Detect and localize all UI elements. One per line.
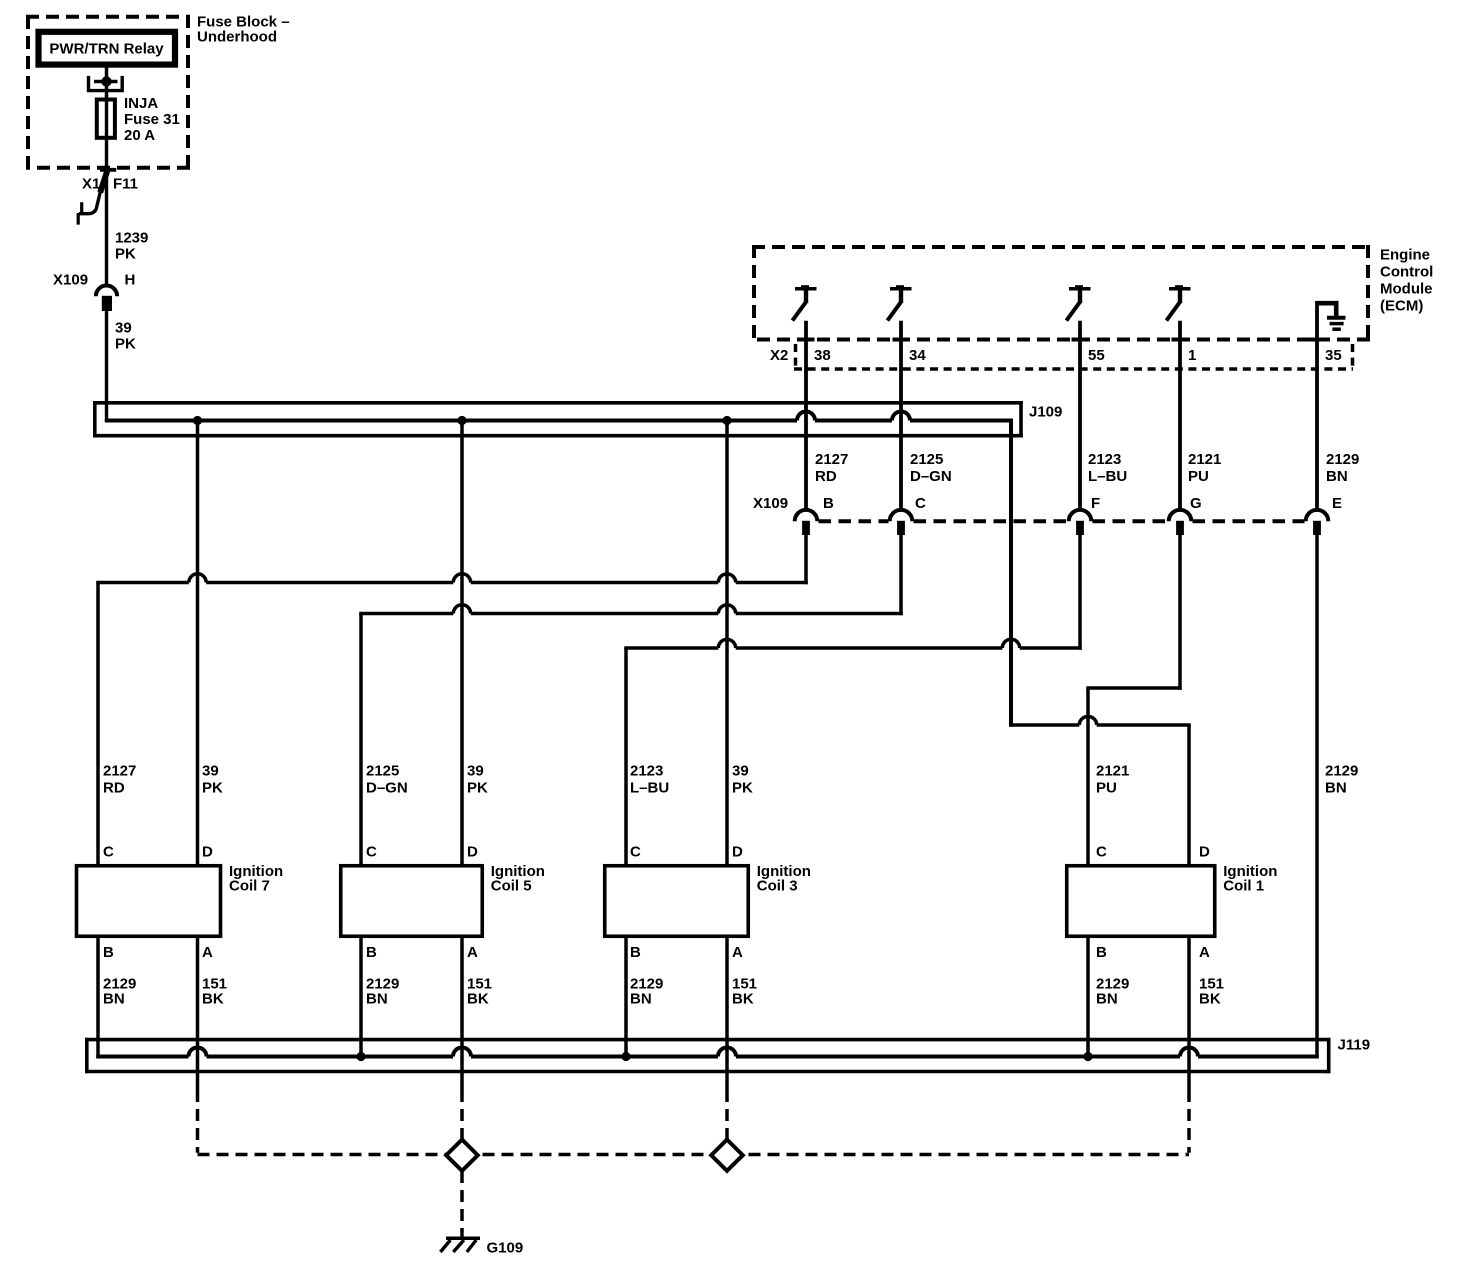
wire 39 PK J109 to coil3 D xyxy=(725,421,729,866)
svg-text:L–BU: L–BU xyxy=(630,780,669,797)
wire 2129 BN coil7 B to J119 xyxy=(96,937,100,1059)
wire 39 PK to coil1 D xyxy=(1187,725,1191,866)
connector X109 pin C xyxy=(890,510,913,521)
svg-text:INJA: INJA xyxy=(124,95,158,112)
svg-text:C: C xyxy=(366,844,377,861)
junction J119 coil1 B xyxy=(1083,1052,1092,1061)
svg-text:D: D xyxy=(202,844,213,861)
splice pack J109 outer box xyxy=(93,401,1023,438)
svg-text:2127: 2127 xyxy=(815,451,848,468)
svg-text:RD: RD xyxy=(815,468,837,485)
wire 2129 BN coil3 B to J119 xyxy=(624,937,628,1059)
svg-text:2125: 2125 xyxy=(366,763,399,780)
ignition coil 3 xyxy=(605,866,749,937)
svg-text:B: B xyxy=(630,944,641,961)
ECM driver output pin 34 xyxy=(887,285,911,320)
svg-text:B: B xyxy=(103,944,114,961)
svg-text:J119: J119 xyxy=(1338,1037,1371,1054)
wire 2127 RD horizontal xyxy=(96,574,808,583)
svg-text:BK: BK xyxy=(202,991,224,1008)
wire 151 BK coil7 A down xyxy=(196,937,200,1090)
wire 39 PK J109 to coil7 D xyxy=(196,421,200,866)
wire 2121 PU ECM 1 to X109 G xyxy=(1178,321,1182,510)
svg-text:J109: J109 xyxy=(1029,404,1062,421)
svg-text:Coil 3: Coil 3 xyxy=(757,878,798,895)
svg-text:2121: 2121 xyxy=(1188,451,1221,468)
ECM driver output pin 1 xyxy=(1166,285,1190,320)
wire X109 F down xyxy=(1078,535,1082,650)
svg-text:PK: PK xyxy=(732,780,753,797)
svg-text:PK: PK xyxy=(202,780,223,797)
ground G109 xyxy=(460,1232,463,1239)
fuse F31 INJA 20A xyxy=(97,100,115,138)
splice diamond at coil3 ground xyxy=(711,1140,743,1171)
svg-text:2125: 2125 xyxy=(910,451,943,468)
svg-text:X109: X109 xyxy=(53,272,88,289)
PWR/TRN Relay K-relay box xyxy=(39,32,176,65)
wire 39 PK horizontal to coil1 D xyxy=(1009,716,1191,725)
svg-text:39: 39 xyxy=(732,763,749,780)
svg-text:2123: 2123 xyxy=(1088,451,1121,468)
ignition coil 5 xyxy=(341,866,483,937)
svg-text:PWR/TRN Relay: PWR/TRN Relay xyxy=(49,41,164,58)
svg-text:A: A xyxy=(1199,944,1210,961)
ECM internal chassis ground xyxy=(1317,303,1336,316)
svg-text:PK: PK xyxy=(115,246,136,263)
svg-text:F11: F11 xyxy=(113,176,138,193)
wire 151 BK coil1 A down xyxy=(1187,937,1191,1090)
wire 39 PK J109 to coil1 D xyxy=(1009,419,1013,727)
wire 2125 D-GN horizontal xyxy=(359,605,903,614)
svg-text:E: E xyxy=(1332,495,1342,512)
wire 1239 PK fuse to X109 H xyxy=(105,142,108,284)
svg-text:D–GN: D–GN xyxy=(910,468,952,485)
splice pack J119 bus bar xyxy=(96,1048,1319,1057)
svg-text:G: G xyxy=(1190,495,1202,512)
svg-text:A: A xyxy=(732,944,743,961)
ignition coil 1 xyxy=(1067,866,1215,937)
svg-text:C: C xyxy=(915,495,926,512)
pin ticks on X2 row xyxy=(798,338,815,342)
junction J119 coil3 B xyxy=(621,1052,630,1061)
svg-text:BN: BN xyxy=(366,991,388,1008)
svg-text:BN: BN xyxy=(630,991,652,1008)
svg-text:D: D xyxy=(732,844,743,861)
svg-text:A: A xyxy=(467,944,478,961)
svg-text:RD: RD xyxy=(103,780,125,797)
wire 151 BK coil7 A dashed xyxy=(196,1090,200,1153)
Engine Control Module (ECM) dashed box xyxy=(752,245,1370,340)
wire 2121 PU to coil1 C xyxy=(1086,688,1090,866)
svg-text:BK: BK xyxy=(732,991,754,1008)
junction on J109 at coil5 feed xyxy=(457,416,466,425)
wire 2129 BN coil1 B to J119 xyxy=(1086,937,1090,1059)
svg-text:34: 34 xyxy=(909,347,926,364)
svg-text:BN: BN xyxy=(1326,468,1348,485)
svg-text:38: 38 xyxy=(814,347,831,364)
svg-text:B: B xyxy=(366,944,377,961)
svg-text:PU: PU xyxy=(1096,780,1117,797)
connector X109 pin B xyxy=(795,510,818,521)
svg-text:Engine: Engine xyxy=(1380,247,1430,264)
svg-text:1: 1 xyxy=(1188,347,1196,364)
svg-text:D: D xyxy=(1199,844,1210,861)
wire 2127 RD to coil7 C xyxy=(96,583,100,866)
wire X109 B down xyxy=(804,535,808,584)
svg-text:2121: 2121 xyxy=(1096,763,1129,780)
wire 39 PK J109 to coil5 D xyxy=(460,421,464,866)
svg-text:A: A xyxy=(202,944,213,961)
ground bus dashed horizontal xyxy=(198,1153,1190,1157)
svg-text:Coil 5: Coil 5 xyxy=(491,878,532,895)
wire relay output to fuse xyxy=(105,67,109,98)
svg-text:B: B xyxy=(1096,944,1107,961)
svg-text:BK: BK xyxy=(467,991,489,1008)
ignition coil 7 xyxy=(77,866,221,937)
svg-text:PU: PU xyxy=(1188,468,1209,485)
svg-text:55: 55 xyxy=(1088,347,1105,364)
wire 151 BK coil5 A dashed xyxy=(460,1090,464,1140)
svg-text:Module: Module xyxy=(1380,281,1433,298)
connector row X2 xyxy=(794,367,1353,371)
svg-text:BN: BN xyxy=(1096,991,1118,1008)
svg-text:D–GN: D–GN xyxy=(366,780,408,797)
connector X109 pin G xyxy=(1169,510,1192,521)
svg-text:2129: 2129 xyxy=(1325,763,1358,780)
junction on J109 at coil7 feed xyxy=(193,416,202,425)
wire to G109 dashed xyxy=(460,1171,464,1232)
svg-text:39: 39 xyxy=(115,320,132,337)
svg-text:20 A: 20 A xyxy=(124,127,155,144)
svg-text:X2: X2 xyxy=(770,347,788,364)
wire 2129 BN ECM 35 to X109 E xyxy=(1315,301,1319,510)
ECM driver output pin 38 xyxy=(792,285,816,320)
splice pack J119 outer box xyxy=(85,1038,1331,1074)
wire 2121 PU horizontal xyxy=(1086,686,1182,690)
svg-text:BK: BK xyxy=(1199,991,1221,1008)
svg-text:G109: G109 xyxy=(487,1240,524,1257)
svg-text:BN: BN xyxy=(1325,780,1347,797)
wire X109 C down xyxy=(899,535,903,615)
wire 2123 L-BU horizontal xyxy=(624,639,1082,648)
svg-text:35: 35 xyxy=(1325,347,1342,364)
svg-text:BN: BN xyxy=(103,991,125,1008)
wire 2125 D-GN ECM 34 to X109 C xyxy=(899,321,903,510)
svg-text:C: C xyxy=(1096,844,1107,861)
wire 151 BK coil3 A dashed xyxy=(725,1090,729,1140)
splice diamond at coil5 ground xyxy=(446,1140,478,1171)
svg-text:Fuse 31: Fuse 31 xyxy=(124,111,180,128)
fuse holder clip bracket xyxy=(87,76,124,91)
svg-text:H: H xyxy=(125,272,136,289)
svg-text:X109: X109 xyxy=(753,495,788,512)
svg-text:2129: 2129 xyxy=(1326,451,1359,468)
svg-text:PK: PK xyxy=(115,336,136,353)
connector hook symbol at X1/F11 xyxy=(100,171,107,193)
relay output terminal junction xyxy=(94,80,118,83)
wire 151 BK coil5 A down xyxy=(460,937,464,1090)
connector X109 pin F xyxy=(1069,510,1092,521)
svg-text:39: 39 xyxy=(467,763,484,780)
svg-text:2123: 2123 xyxy=(630,763,663,780)
svg-text:Underhood: Underhood xyxy=(197,29,277,46)
junction J119 coil5 B xyxy=(356,1052,365,1061)
svg-text:(ECM): (ECM) xyxy=(1380,298,1423,315)
svg-text:F: F xyxy=(1091,495,1100,512)
wire 2129 BN coil5 B to J119 xyxy=(359,937,363,1059)
connector X1 pin F11 tick xyxy=(100,168,116,172)
svg-text:Control: Control xyxy=(1380,264,1433,281)
svg-text:Coil 7: Coil 7 xyxy=(229,878,270,895)
wire 39 PK X109 H to J109 xyxy=(105,311,108,421)
wire 2127 RD ECM 38 to X109 B xyxy=(804,321,808,510)
connector X109 pin H xyxy=(96,286,117,297)
svg-text:C: C xyxy=(630,844,641,861)
svg-text:1239: 1239 xyxy=(115,230,148,247)
wire 2123 L-BU to coil3 C xyxy=(624,648,628,866)
ECM driver output pin 55 xyxy=(1066,285,1090,320)
wire 2123 L-BU ECM 55 to X109 F xyxy=(1078,321,1082,510)
wire 151 BK coil3 A down xyxy=(725,937,729,1090)
svg-text:Coil 1: Coil 1 xyxy=(1223,878,1264,895)
fuse block underhood dashed box xyxy=(26,15,190,169)
svg-text:39: 39 xyxy=(202,763,219,780)
svg-text:B: B xyxy=(823,495,834,512)
wire 2129 BN X109 E to J119 xyxy=(1315,535,1319,1059)
wire X109 G down xyxy=(1178,535,1182,690)
wire 151 BK coil1 A dashed xyxy=(1187,1090,1191,1153)
svg-text:PK: PK xyxy=(467,780,488,797)
connector X109 pin E xyxy=(1306,510,1329,521)
junction on J109 at coil3 feed xyxy=(722,416,731,425)
svg-text:X1: X1 xyxy=(82,176,100,193)
wire 2125 D-GN to coil5 C xyxy=(359,614,363,866)
svg-text:2127: 2127 xyxy=(103,763,136,780)
svg-text:L–BU: L–BU xyxy=(1088,468,1127,485)
svg-text:D: D xyxy=(467,844,478,861)
splice pack J109 bus bar xyxy=(105,412,1013,421)
svg-text:C: C xyxy=(103,844,114,861)
